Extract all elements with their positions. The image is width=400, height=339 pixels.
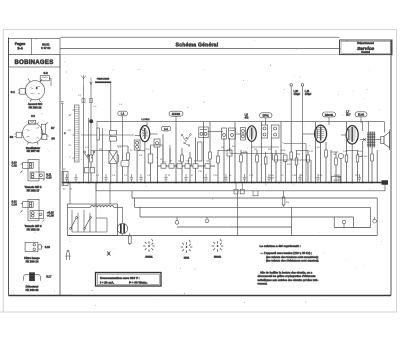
svg-text:3-4: 3-4 bbox=[17, 47, 22, 51]
switch cluster bbox=[181, 134, 191, 147]
wire antenna down bbox=[83, 86, 85, 183]
svg-text:ressent.: ressent. bbox=[258, 281, 268, 285]
label Accord GC bbox=[28, 102, 42, 118]
coil Osc right flag bbox=[41, 122, 55, 133]
svg-text:27k: 27k bbox=[297, 154, 300, 156]
label box L1 bbox=[118, 111, 128, 150]
oscillator coil box bbox=[134, 140, 140, 150]
coil Osc top box bbox=[29, 120, 36, 124]
svg-text:EL41: EL41 bbox=[358, 113, 365, 117]
Transfo MF1 labels left bbox=[12, 161, 53, 179]
MF2 can B bbox=[271, 125, 279, 138]
test point D bbox=[373, 217, 377, 223]
svg-text:S.17: S.17 bbox=[46, 276, 52, 279]
svg-text:O 67 03: O 67 03 bbox=[41, 46, 51, 50]
oval label V1 bbox=[169, 111, 183, 124]
cap symbols on chassis bbox=[65, 174, 361, 183]
padder box bbox=[154, 139, 160, 147]
tuning gang wire bbox=[81, 134, 135, 136]
staircase line 1 bbox=[96, 183, 385, 191]
junction blob bbox=[89, 119, 93, 123]
mains switch bbox=[70, 217, 92, 230]
resistor row horizontal bbox=[158, 164, 215, 168]
tube V4 EL41 bbox=[341, 126, 358, 144]
label box 1-4 bbox=[161, 126, 171, 131]
svg-text:10k: 10k bbox=[206, 161, 209, 163]
speaker bbox=[381, 130, 390, 151]
svg-text:EF41: EF41 bbox=[184, 258, 190, 260]
decoupling boxes under bus bbox=[234, 183, 258, 196]
bottom return line bbox=[68, 235, 378, 237]
mesh connectors bbox=[91, 144, 358, 183]
mains coil bbox=[68, 206, 123, 208]
svg-text:P = 30 Watts.: P = 30 Watts. bbox=[129, 280, 148, 284]
svg-text:Filtre image: Filtre image bbox=[24, 256, 40, 260]
Transfo MF1 top winding bbox=[21, 162, 34, 173]
left terminal box bbox=[62, 169, 68, 186]
svg-text:Consommation avec 110 V :: Consommation avec 110 V : bbox=[100, 276, 140, 280]
coil Accord pin box S2 bbox=[40, 71, 51, 86]
pot circle bbox=[338, 153, 343, 158]
band switch wafers bbox=[110, 131, 117, 142]
wire cadre link down bbox=[110, 83, 112, 152]
staircase line 2 bbox=[132, 191, 377, 236]
coil Oscillateur circle bbox=[23, 122, 43, 145]
Filtre image box bbox=[25, 242, 50, 251]
AVC mesh wires bbox=[230, 147, 311, 160]
svg-text:470k: 470k bbox=[281, 150, 285, 152]
svg-text:PRISE CADRE: PRISE CADRE bbox=[97, 78, 110, 81]
label L7 bbox=[346, 112, 351, 117]
Transfo MF2 outer box bbox=[28, 199, 39, 220]
Transfo MF2 labels bbox=[12, 201, 55, 218]
ose coupling resistor bbox=[97, 128, 100, 140]
svg-text:S7: S7 bbox=[51, 126, 55, 130]
Transfo MF1 bottom winding bbox=[30, 172, 44, 181]
B+ rail wire bbox=[97, 121, 384, 123]
svg-text:47k: 47k bbox=[194, 161, 197, 163]
chassis bus bbox=[62, 180, 388, 185]
svg-text:ECH81: ECH81 bbox=[145, 257, 153, 259]
svg-text:Le schéma a été représenté :: Le schéma a été représenté : bbox=[260, 244, 301, 248]
svg-text:L.21: L.21 bbox=[305, 91, 310, 93]
svg-text:Oscillateur: Oscillateur bbox=[26, 146, 41, 150]
Transfo MF2 bottom winding bbox=[30, 211, 44, 222]
output transformer bbox=[367, 132, 375, 148]
coil Osc left connector S4 bbox=[10, 132, 22, 139]
svg-text:1M: 1M bbox=[254, 149, 257, 151]
svg-text:ECH81: ECH81 bbox=[172, 112, 181, 116]
coil Osc right connector S6 bbox=[42, 134, 55, 140]
MF1 can B bbox=[208, 128, 235, 139]
svg-text:S-1: S-1 bbox=[11, 90, 16, 94]
svg-text:C.34: C.34 bbox=[12, 204, 18, 207]
svg-text:Transfo MF 2: Transfo MF 2 bbox=[25, 224, 42, 228]
wire earth down bbox=[90, 86, 92, 151]
test point B bbox=[205, 217, 209, 223]
BOBINAGES column divider bbox=[59, 55, 61, 296]
svg-text:47k: 47k bbox=[99, 149, 102, 151]
staircase line 5 bbox=[177, 191, 292, 236]
label Transfo MF1 bbox=[25, 185, 42, 192]
svg-text:FK 860 14: FK 860 14 bbox=[26, 260, 39, 264]
MF1 lower coil bbox=[198, 142, 202, 161]
svg-text:S6: S6 bbox=[51, 137, 55, 141]
cadre tap labels bbox=[68, 115, 72, 159]
Transfo MF2 top winding bbox=[21, 202, 34, 213]
cadre taps verticals bbox=[88, 118, 102, 183]
power box risers bbox=[70, 183, 110, 205]
svg-text:RS 52: RS 52 bbox=[42, 42, 50, 46]
label L5 bbox=[245, 115, 250, 120]
bus junction dots bbox=[68, 182, 373, 184]
rectifier bbox=[117, 207, 127, 236]
power internal wires bbox=[72, 204, 107, 232]
svg-text:22k: 22k bbox=[178, 161, 181, 163]
staircase line 3 bbox=[135, 198, 371, 228]
R20 label box bbox=[332, 176, 341, 182]
cathode hook bbox=[358, 154, 362, 157]
tube V3 EBC41 bbox=[303, 125, 327, 142]
svg-text:Détecteur: Détecteur bbox=[26, 285, 40, 289]
svg-text:FK 806 16: FK 806 16 bbox=[29, 105, 42, 109]
consommation box bbox=[96, 273, 162, 287]
left corner marks bbox=[63, 189, 73, 191]
tube V1 ECH81 bbox=[135, 119, 158, 142]
wire drops column left bbox=[91, 122, 377, 183]
svg-text:C.32: C.32 bbox=[12, 164, 18, 167]
Detecteur symbol bbox=[24, 273, 52, 281]
staircase line 4 bbox=[140, 207, 353, 227]
header rule bbox=[9, 54, 392, 56]
cadre coil hatched bbox=[64, 105, 79, 162]
MF2 can A bbox=[261, 125, 267, 138]
socket S3 bbox=[212, 239, 224, 259]
MF1 can A bbox=[199, 127, 208, 138]
HP filter box bbox=[109, 151, 117, 164]
svg-text:I = 29 mA.: I = 29 mA. bbox=[100, 280, 114, 284]
svg-text:C.33: C.33 bbox=[46, 176, 52, 179]
tube V2 EF41 bbox=[236, 126, 256, 142]
speaker leads bbox=[360, 138, 381, 140]
svg-text:25.7: 25.7 bbox=[346, 114, 351, 116]
oval label V3 bbox=[323, 112, 336, 125]
svg-text:Schéma Général: Schéma Général bbox=[176, 43, 219, 49]
bleeder resistor bbox=[129, 233, 132, 245]
title bar Schema General bbox=[60, 37, 340, 48]
label Transfo MF2 bbox=[25, 224, 42, 231]
svg-text:470pF: 470pF bbox=[294, 94, 301, 96]
svg-text:(les valeurs des résistances s: (les valeurs des résistances sont exacte… bbox=[266, 259, 319, 263]
label Filtre image bbox=[24, 256, 40, 263]
svg-text:470pF: 470pF bbox=[305, 94, 312, 96]
svg-text:Central: Central bbox=[361, 51, 370, 54]
outer frame bbox=[9, 38, 392, 296]
socket S2 bbox=[181, 240, 193, 260]
oval label V4 bbox=[355, 112, 367, 123]
scan speckle bbox=[14, 39, 381, 305]
svg-text:FK 852 18: FK 852 18 bbox=[27, 228, 40, 232]
svg-text:EBC41: EBC41 bbox=[214, 257, 222, 259]
label Oscillateur bbox=[26, 146, 41, 153]
svg-text:S-2: S-2 bbox=[44, 71, 49, 75]
earth arrow bbox=[90, 78, 92, 86]
Departement Service Central box bbox=[340, 40, 393, 55]
mains plug bbox=[65, 250, 71, 260]
label Detecteur bbox=[26, 285, 40, 292]
header table Pages box bbox=[9, 39, 61, 55]
switch contacts left bbox=[84, 151, 95, 173]
svg-text:Accord GC: Accord GC bbox=[28, 102, 42, 106]
prise cadre bar bbox=[95, 78, 111, 84]
svg-text:FK 849 62: FK 849 62 bbox=[26, 288, 39, 292]
svg-text:Département: Département bbox=[357, 41, 374, 45]
svg-text:FK 852 17: FK 852 17 bbox=[27, 188, 40, 192]
svg-text:L.2 25.1: L.2 25.1 bbox=[142, 119, 151, 121]
svg-text:1M: 1M bbox=[333, 154, 336, 156]
svg-text:Pages: Pages bbox=[15, 42, 26, 46]
test point C bbox=[342, 220, 346, 227]
test point A bbox=[175, 217, 179, 224]
tone cap box bbox=[121, 161, 129, 167]
coil Accord pin box S1 bbox=[11, 89, 26, 95]
svg-text:S4: S4 bbox=[10, 135, 14, 139]
BOBINAGES header bbox=[9, 55, 61, 67]
note paragraph bbox=[258, 271, 319, 286]
svg-text:+C.35: +C.35 bbox=[47, 215, 54, 218]
coil Accord GC circle bbox=[25, 79, 44, 103]
svg-text:25k: 25k bbox=[286, 202, 289, 204]
terminal T1 bbox=[290, 84, 301, 122]
svg-text:BOBINAGES: BOBINAGES bbox=[14, 60, 53, 66]
speaker top feed bbox=[363, 122, 385, 133]
svg-text:EBC41: EBC41 bbox=[325, 113, 334, 117]
svg-text:R.20: R.20 bbox=[334, 180, 339, 182]
svg-text:8 8: 8 8 bbox=[31, 114, 35, 118]
value labels scatter bbox=[85, 146, 368, 180]
fuse arrow bbox=[107, 251, 111, 256]
svg-text:L.20: L.20 bbox=[294, 91, 299, 93]
oval label V2 bbox=[260, 113, 273, 125]
antenna series cap bbox=[78, 95, 123, 108]
anode resistor R11 bbox=[282, 191, 289, 208]
resistor boxes vertical bbox=[90, 150, 374, 165]
IF link can bbox=[241, 128, 246, 141]
Transfo MF1 outer box bbox=[28, 160, 39, 181]
antenna symbol bbox=[81, 75, 86, 86]
power box outline bbox=[68, 204, 118, 236]
socket S1 bbox=[143, 239, 155, 259]
svg-text:S.16: S.16 bbox=[45, 246, 51, 249]
terminal T2 bbox=[301, 84, 312, 136]
svg-text:FK 807 08: FK 807 08 bbox=[27, 149, 40, 153]
svg-text:Transfo MF 1: Transfo MF 1 bbox=[25, 185, 42, 189]
svg-text:EF41: EF41 bbox=[263, 114, 270, 118]
PU input wire bbox=[61, 102, 64, 183]
